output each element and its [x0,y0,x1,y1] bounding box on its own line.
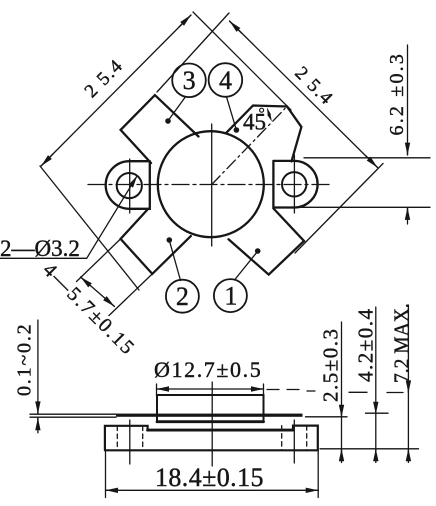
left hole vertical centerline [129,159,131,213]
svg-text:2: 2 [176,282,189,311]
18.4 dimension line [106,489,319,491]
svg-text:2.5±0.3: 2.5±0.3 [319,327,343,402]
flange center recess line emphasize [148,429,293,432]
lead 2 (SW) [121,209,191,274]
left screw hole hidden line a [116,426,118,450]
left hole axis [129,420,131,464]
svg-text:45: 45 [243,110,266,135]
dimension line 25.4 upper-left [41,15,191,166]
dia12.7 extension left [156,384,158,396]
2.5 dimension line [341,322,343,459]
svg-text:2—Ø3.2: 2—Ø3.2 [0,236,80,261]
18.4 extension left [105,451,107,498]
extension for 5.7 lower [109,274,152,316]
right screw hole hidden line a [281,426,283,450]
leader underline [0,176,137,258]
diagonal centerline 45deg [212,109,285,185]
svg-text:3: 3 [183,66,196,95]
strip extension left bottom [30,416,116,418]
6.2 dimension line [407,45,409,155]
left screw hole hidden line b [142,426,144,450]
left mounting tab [106,161,150,209]
strip extension left top [30,413,116,415]
horizontal centerline [88,184,332,186]
svg-text:4.2±0.4: 4.2±0.4 [354,307,378,382]
svg-text:2 5.4: 2 5.4 [81,55,128,102]
right hole axis [293,420,295,463]
extension line lower-right [295,164,383,254]
right hole vertical centerline [293,155,295,213]
lead strip [116,414,303,417]
vertical centerline [211,124,213,246]
4.2 dimension line [375,307,377,459]
svg-text:1: 1 [224,281,237,310]
svg-text:Ø12.7±0.5: Ø12.7±0.5 [154,357,262,382]
svg-text:4—5.7±0.15: 4—5.7±0.15 [38,259,139,360]
7.2 dimension line [407,305,409,459]
6.2 extension bottom [301,206,430,208]
18.4 extension right [317,451,319,498]
dia12.7 dimension line [157,388,264,390]
leader pin 3 [168,97,186,121]
cap top dashed extension for 7.2 [267,390,315,392]
cap bottom thick line [157,420,264,423]
pin circle 3 [172,64,206,98]
0.1-0.2 dimension line upper [37,320,39,414]
svg-text:0.1~0.2: 0.1~0.2 [14,323,36,396]
leader pin 2 [169,240,180,280]
strip top extension tick for 4.2 [366,412,389,414]
degree symbol [260,108,264,112]
dimension line 25.4 upper-right [230,21,378,168]
dia12.7 extension right [263,384,265,396]
right mounting tab [273,161,317,208]
right tab hole [282,172,306,196]
flange bottom extension right [320,448,419,450]
central cap circle [158,131,264,237]
leader pin 4 [227,97,237,130]
extension line lower-left [40,166,139,290]
svg-text:2 5.4: 2 5.4 [290,63,337,110]
cap rectangle [157,395,264,422]
lead 1 (SE) [229,209,305,275]
flange outline [105,426,318,451]
right screw hole hidden line b [306,426,308,450]
svg-text:6.2 ±0.3: 6.2 ±0.3 [386,52,408,136]
left tab hole [117,173,142,198]
lead 3 (NW) [121,95,199,163]
45 degree annotation arrow [267,107,271,115]
pin circle 2 [166,280,199,313]
6.2 extension top [304,157,430,159]
dimension 4-5.7 line [81,277,115,307]
extension for 5.7 upper [77,239,121,282]
extension line top-right to NW lead corner [157,13,229,92]
svg-text:4: 4 [219,66,232,95]
extension line top-left to NE lead corner [193,12,291,110]
lead 4 (NE) [227,106,302,162]
0.1-0.2 dimension line lower [37,418,39,433]
leader pin 1 [235,251,258,280]
svg-text:7.2 MAX.: 7.2 MAX. [391,303,414,383]
strip bottom extension right for 2.5 [306,416,348,418]
pin circle 1 [214,279,247,312]
pin circle 4 [209,63,243,97]
side vertical centerline [211,382,213,466]
svg-text:18.4±0.15: 18.4±0.15 [155,463,264,492]
